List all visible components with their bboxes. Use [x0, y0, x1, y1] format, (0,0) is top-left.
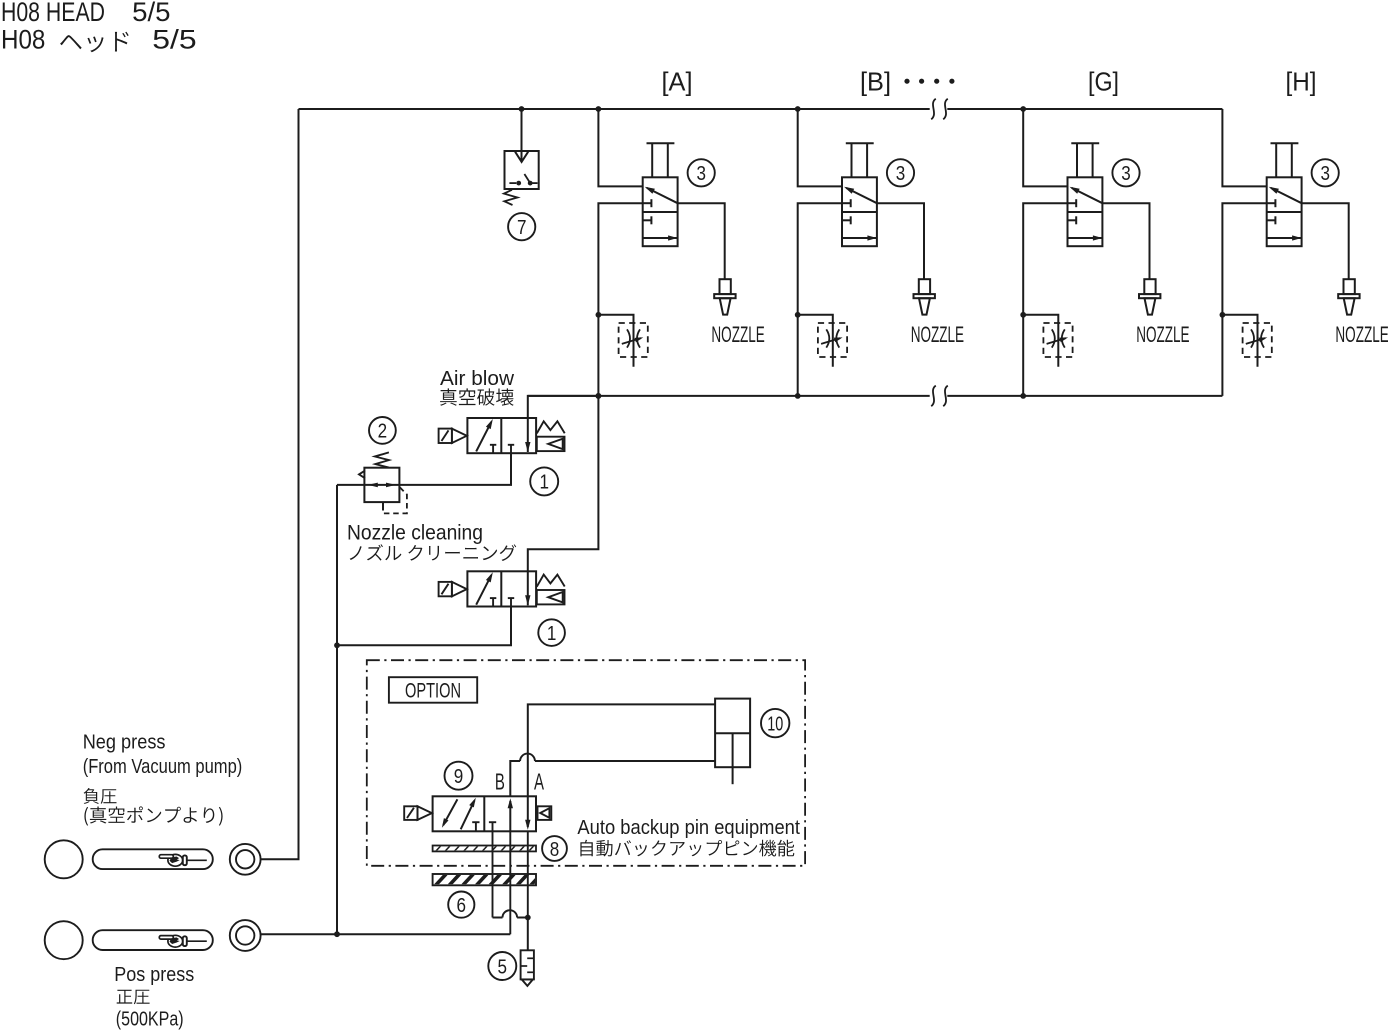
silencer 5 [521, 950, 534, 986]
node exhaust junction [525, 915, 531, 921]
valve 3 channel B upper position flow path [844, 187, 877, 203]
wire supply riser through plates to valve 9 [509, 831, 511, 934]
valve 3 channel H plunger actuator [1271, 143, 1299, 177]
svg-text:NOZZLE: NOZZLE [911, 322, 964, 347]
wire channel G to bottom bus [1020, 203, 1067, 399]
label 3 channel G [1112, 159, 1139, 186]
valve 3 channel A 3-port valve body [643, 177, 678, 246]
valve 9 right position A flow path [525, 796, 530, 829]
wire channel A to throttle [598, 315, 633, 367]
svg-text:[H]: [H] [1286, 66, 1317, 96]
label 3 channel A [688, 159, 715, 186]
wire channel H inlet from top bus [1222, 109, 1266, 186]
valve 1 air-blow body [467, 418, 536, 453]
svg-text:(From Vacuum pump): (From Vacuum pump) [83, 756, 243, 778]
wire channel H to bottom bus [1222, 203, 1266, 396]
neg press inlet port double circle [230, 844, 261, 875]
label Neg press [83, 731, 243, 777]
svg-text:[G]: [G] [1088, 66, 1119, 96]
svg-text:[A]: [A] [662, 66, 693, 96]
valve 3 channel A lower blocked port [643, 216, 652, 224]
valve 3 channel G upper blocked port [1068, 199, 1077, 207]
wire top vacuum bus [299, 108, 1223, 110]
valve 3 channel G upper position flow path [1070, 187, 1103, 203]
title line 1 [1, 0, 171, 27]
label 10 [761, 709, 789, 737]
wire channel B valve to nozzle [877, 203, 924, 279]
valve 3 channel G plunger actuator [1071, 143, 1099, 177]
svg-text:9: 9 [454, 765, 464, 788]
svg-text:B: B [495, 768, 505, 794]
pos press inlet manual shutoff pill [93, 930, 213, 950]
nozzle channel H [1338, 279, 1359, 314]
svg-text:2: 2 [378, 420, 388, 443]
svg-text:[B]: [B] [860, 66, 891, 96]
break squiggle top bus [931, 99, 948, 120]
node label [A] [662, 66, 693, 96]
wire valve B port to cylinder rod side with crossover hop [510, 754, 715, 797]
wire regulator to left riser [337, 484, 364, 486]
svg-text:3: 3 [1121, 162, 1131, 185]
label 6 [448, 892, 474, 918]
svg-text:5: 5 [498, 955, 508, 978]
valve 1 air-blow right position blocked port [508, 445, 514, 453]
node label [G] [1088, 66, 1119, 96]
valve 3 channel H 3-port valve body [1267, 177, 1302, 246]
throttle valve channel H [1243, 323, 1272, 357]
valve 3 channel A plunger actuator [647, 143, 675, 177]
wire exhaust link with crossover hop [493, 910, 528, 917]
throttle valve channel G [1043, 323, 1072, 357]
svg-text:1: 1 [547, 622, 557, 645]
wire channel B to throttle [798, 315, 833, 367]
svg-text:5/5: 5/5 [152, 24, 196, 54]
valve 1 air-blow return spring [537, 421, 565, 433]
OPTION enclosure dash-dot border [367, 660, 805, 866]
label 1 nozzle cleaning [538, 619, 565, 646]
wire channel A valve to nozzle [678, 203, 725, 279]
break squiggle bottom bus [931, 386, 948, 407]
valve 3 channel B upper blocked port [842, 199, 851, 207]
valve 1 air-blow pilot box [537, 437, 565, 451]
wire valve 9 blocked port through plates [492, 822, 494, 917]
svg-text:NOZZLE: NOZZLE [1335, 322, 1388, 347]
label 5 [488, 952, 516, 980]
valve 3 channel H upper blocked port [1267, 199, 1276, 207]
label 9 [445, 762, 473, 790]
valve 1 nozzle-cleaning right position flow path [525, 571, 530, 605]
regulator 2 adjustment spring [375, 452, 389, 467]
node channel A throttle tap [596, 312, 602, 318]
svg-text:Pos press: Pos press [114, 964, 194, 986]
cylinder 10 [715, 699, 750, 785]
valve 1 air-blow solenoid [439, 429, 467, 443]
label ノズル クリーニング [350, 544, 517, 561]
valve 1 nozzle-cleaning right position blocked port [508, 598, 514, 606]
valve 3 channel G lower position flow path [1068, 235, 1103, 240]
label B port [495, 768, 505, 794]
wire valve A line through plates to exhaust node [527, 831, 529, 917]
node channel G throttle tap [1020, 312, 1026, 318]
svg-text:Air blow: Air blow [440, 368, 515, 390]
node channel H throttle tap [1220, 312, 1226, 318]
label 2 [369, 417, 396, 444]
valve 3 channel G 3-port valve body [1068, 177, 1103, 246]
label A port [534, 769, 544, 795]
svg-text:Nozzle cleaning: Nozzle cleaning [347, 521, 483, 544]
label NOZZLE channel B [911, 322, 964, 347]
valve 1 air-blow left position flow path [476, 419, 496, 453]
svg-text:H08 HEAD: H08 HEAD [1, 0, 105, 27]
valve 3 channel B lower blocked port [842, 216, 851, 224]
label NOZZLE channel A [711, 322, 764, 347]
wire top bus to pressure switch 7 [521, 109, 523, 162]
label Auto backup pin equipment [577, 816, 800, 839]
svg-text:NOZZLE: NOZZLE [711, 322, 764, 347]
wire channel B inlet from top bus [795, 106, 842, 186]
head plate 6 hatched [433, 874, 542, 885]
valve 9 left position flow paths [442, 798, 480, 832]
svg-text:Auto backup pin equipment: Auto backup pin equipment [577, 816, 800, 839]
label Pos press [114, 964, 194, 986]
wire channel A inlet from top bus [596, 106, 643, 186]
throttle valve channel B [818, 323, 847, 357]
node label [H] [1286, 66, 1317, 96]
wire nozzle cleaning valve to left riser [337, 607, 511, 646]
nozzle channel G [1139, 279, 1160, 314]
wire channel A to bottom bus [596, 203, 643, 399]
valve 1 nozzle-cleaning return spring [537, 575, 565, 587]
valve 3 channel B plunger actuator [846, 143, 874, 177]
svg-text:(500KPa): (500KPa) [116, 1008, 184, 1030]
svg-text:3: 3 [696, 162, 706, 185]
valve 3 channel H lower blocked port [1267, 216, 1276, 224]
node label [B] [860, 66, 891, 96]
wire air blow valve to bottom bus [528, 396, 599, 418]
node pressure-switch tap on top bus [519, 106, 525, 112]
neg press inlet manual shutoff pill [93, 849, 213, 869]
label 負圧 [84, 788, 117, 804]
svg-text:Neg press: Neg press [83, 731, 166, 753]
svg-text:8: 8 [550, 838, 560, 861]
valve 1 nozzle-cleaning pilot box [537, 590, 565, 604]
svg-text:5/5: 5/5 [132, 0, 170, 27]
valve 9 pilot box [538, 806, 552, 820]
label 500KPa [116, 1008, 184, 1030]
node channel B throttle tap [795, 312, 801, 318]
label 真空ポンプより [84, 806, 222, 825]
wire neg press to top bus [261, 109, 299, 859]
valve 1 nozzle-cleaning left position flow path [476, 572, 496, 606]
label 8 [542, 836, 567, 861]
svg-text:1: 1 [539, 471, 549, 494]
svg-text:OPTION: OPTION [405, 679, 461, 702]
svg-text:7: 7 [517, 216, 527, 239]
valve 3 channel A upper position flow path [645, 187, 678, 203]
wire air blow valve to regulator [399, 453, 511, 485]
valve 9 body [433, 796, 536, 831]
OPTION label box [389, 677, 477, 703]
regulator 2 bottom vent port [382, 502, 384, 510]
wire channel H valve to nozzle [1302, 203, 1349, 279]
wire bottom supply bus [528, 395, 1223, 397]
valve 1 nozzle-cleaning solenoid [439, 582, 467, 596]
pos press inlet gauge circle [45, 921, 83, 959]
nozzle channel B [914, 279, 935, 314]
svg-text:A: A [534, 769, 544, 795]
wire channel G valve to nozzle [1102, 203, 1149, 279]
title line 2 [1, 24, 197, 54]
valve 3 channel H upper position flow path [1269, 187, 1302, 203]
wire to silencer 5 [527, 918, 529, 951]
label 3 channel B [887, 159, 914, 186]
label Air blow [440, 368, 515, 390]
pos press inlet port double circle [230, 920, 261, 951]
label 7 [508, 213, 535, 240]
regulator 2 pilot line dashed [384, 487, 407, 513]
wire channel B to bottom bus [795, 203, 842, 399]
valve 9 right position blocked port [489, 821, 496, 823]
wire channel G to throttle [1023, 315, 1058, 367]
svg-text:H08: H08 [1, 24, 45, 54]
label NOZZLE channel H [1335, 322, 1388, 347]
valve 3 channel A lower position flow path [643, 235, 678, 240]
wire valve A port to cylinder cap side [528, 704, 715, 796]
wire channel G inlet from top bus [1020, 106, 1067, 186]
label 真空破壊 [440, 388, 513, 405]
backup pin plate 8 hatched [433, 846, 544, 852]
wire pos press supply [261, 933, 511, 935]
wire channel H to throttle [1222, 315, 1257, 367]
label 3 channel H [1312, 159, 1339, 186]
valve 3 channel B lower position flow path [842, 235, 877, 240]
valve 9 solenoid [404, 806, 432, 820]
wire left riser pos press [334, 485, 340, 937]
valve 1 air-blow right position flow path [525, 418, 530, 452]
svg-text:3: 3 [1320, 162, 1330, 185]
nozzle channel A [714, 279, 735, 314]
pressure switch 7 [504, 151, 539, 205]
svg-text:NOZZLE: NOZZLE [1136, 322, 1189, 347]
regulator 2 body [359, 468, 399, 502]
svg-text:10: 10 [767, 712, 783, 735]
wire nozzle cleaning valve to bottom bus node [528, 393, 602, 571]
svg-text:6: 6 [457, 894, 467, 917]
svg-text:3: 3 [896, 162, 906, 185]
valve 3 channel A upper blocked port [643, 199, 652, 207]
valve 9 right position B flow path [508, 798, 513, 831]
label 自動バックアップピン機能 [580, 840, 794, 857]
throttle valve channel A [619, 323, 648, 357]
neg press inlet gauge circle [45, 840, 83, 878]
valve 3 channel H lower position flow path [1267, 235, 1302, 240]
valve 3 channel B 3-port valve body [842, 177, 877, 246]
label Nozzle cleaning [347, 521, 483, 544]
valve 1 nozzle-cleaning body [467, 571, 536, 606]
regulator 2 flow path [364, 483, 399, 488]
label 正圧 [117, 990, 150, 1005]
label NOZZLE channel G [1136, 322, 1189, 347]
label 1 air blow [530, 467, 558, 495]
ellipsis dots after [B] [904, 79, 954, 84]
valve 3 channel G lower blocked port [1068, 216, 1077, 224]
